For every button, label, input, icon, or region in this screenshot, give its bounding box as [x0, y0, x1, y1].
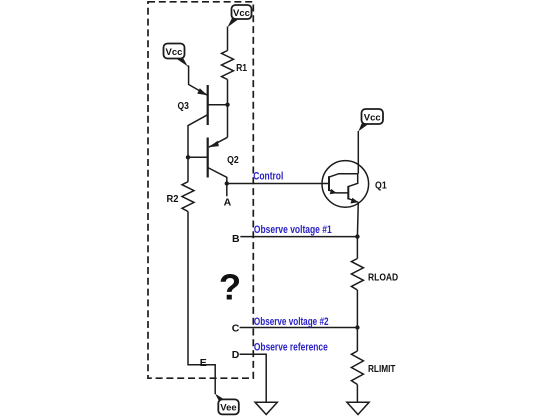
- svg-text:Vcc: Vcc: [166, 47, 183, 58]
- wire RLOAD bottom to node C: [356, 290, 358, 328]
- svg-text:Observe voltage #1: Observe voltage #1: [254, 224, 332, 236]
- dashed box (unknown circuit boundary): [148, 2, 253, 378]
- resistor R2: [182, 182, 194, 212]
- wire node C: [240, 327, 358, 329]
- transistor Q2 base bar: [207, 138, 209, 178]
- transistor Q3 base bar: [207, 85, 209, 125]
- svg-text:E: E: [200, 357, 207, 369]
- junction node B: [355, 234, 359, 238]
- wire node C to RLIMIT: [356, 328, 358, 352]
- svg-text:R1: R1: [236, 62, 247, 74]
- wire RLIMIT to ground: [356, 385, 358, 403]
- svg-text:A: A: [224, 197, 232, 209]
- wire node D to ground: [240, 354, 267, 402]
- wire Q3 base: [208, 104, 228, 106]
- Q1 inner T1 base bar: [328, 176, 330, 191]
- Q1 inner T2 collector: [349, 174, 358, 187]
- svg-text:Vee: Vee: [220, 403, 236, 414]
- wire Control: node A to Q1 base: [227, 183, 329, 185]
- wire Q3 collector: [188, 115, 208, 182]
- wire R2 bottom to E to Vee: [188, 212, 215, 395]
- svg-text:Vcc: Vcc: [233, 8, 250, 19]
- arrowhead Q1 T1 emitter (NPN, out): [330, 189, 337, 194]
- wire node A stub: [226, 184, 228, 197]
- Vcc flag 1 (top, above R1): [227, 5, 251, 27]
- junction node R1/Q3 base: [225, 103, 229, 107]
- wire Q2 emitter: [209, 137, 228, 147]
- svg-text:D: D: [232, 349, 240, 361]
- junction node A: [225, 181, 229, 185]
- svg-text:Observe voltage #2: Observe voltage #2: [254, 316, 329, 328]
- wire node B: [240, 236, 357, 238]
- svg-text:Observe reference: Observe reference: [254, 341, 328, 353]
- wire Q2 collector to node A: [208, 168, 227, 184]
- wire Vcc3 to Q1 collector: [357, 131, 359, 174]
- Q1 inner T2 base bar: [347, 186, 349, 200]
- svg-text:Q3: Q3: [178, 100, 190, 112]
- wire Vcc2 to Q3 emitter: [187, 66, 207, 95]
- svg-text:Vcc: Vcc: [364, 112, 381, 123]
- ground symbol left: [255, 402, 277, 414]
- Vee flag (bottom): [215, 394, 239, 415]
- resistor RLOAD: [351, 259, 363, 291]
- svg-text:RLOAD: RLOAD: [368, 271, 399, 283]
- resistor R1: [222, 51, 234, 80]
- svg-text:R2: R2: [167, 193, 179, 205]
- arrowhead Q2 emitter (PNP, into bar): [209, 141, 219, 147]
- wire R1 bottom to Q2 emitter start: [227, 80, 229, 138]
- junction node C: [355, 325, 359, 329]
- svg-text:?: ?: [219, 266, 241, 307]
- wire Q1 emitter down to RLOAD: [356, 202, 359, 258]
- svg-text:B: B: [232, 233, 240, 245]
- svg-text:Q2: Q2: [227, 154, 239, 166]
- Vcc flag 2 (left, to Q3): [164, 44, 188, 67]
- transistor Q1 circle: [322, 161, 369, 208]
- svg-text:Q1: Q1: [375, 179, 387, 191]
- svg-text:C: C: [232, 323, 240, 335]
- arrowhead Q1 T2 emitter (NPN, out): [350, 198, 358, 204]
- svg-text:RLIMIT: RLIMIT: [368, 363, 396, 375]
- Q1 inner T2 emitter: [349, 199, 359, 203]
- ground symbol right: [347, 402, 369, 414]
- resistor RLIMIT: [351, 351, 363, 385]
- svg-text:Control: Control: [253, 170, 283, 182]
- Q1 inner T1 collector: [329, 174, 358, 177]
- Q1 inner T1 emitter: [329, 190, 348, 193]
- Vcc flag 3 (above Q1): [358, 109, 383, 131]
- wire Q2 base: [188, 156, 208, 158]
- wire Vcc1 to R1 top: [227, 27, 229, 51]
- junction node R2/Q2 base: [186, 155, 190, 159]
- arrowhead Q3 emitter (PNP, into bar): [197, 88, 207, 95]
